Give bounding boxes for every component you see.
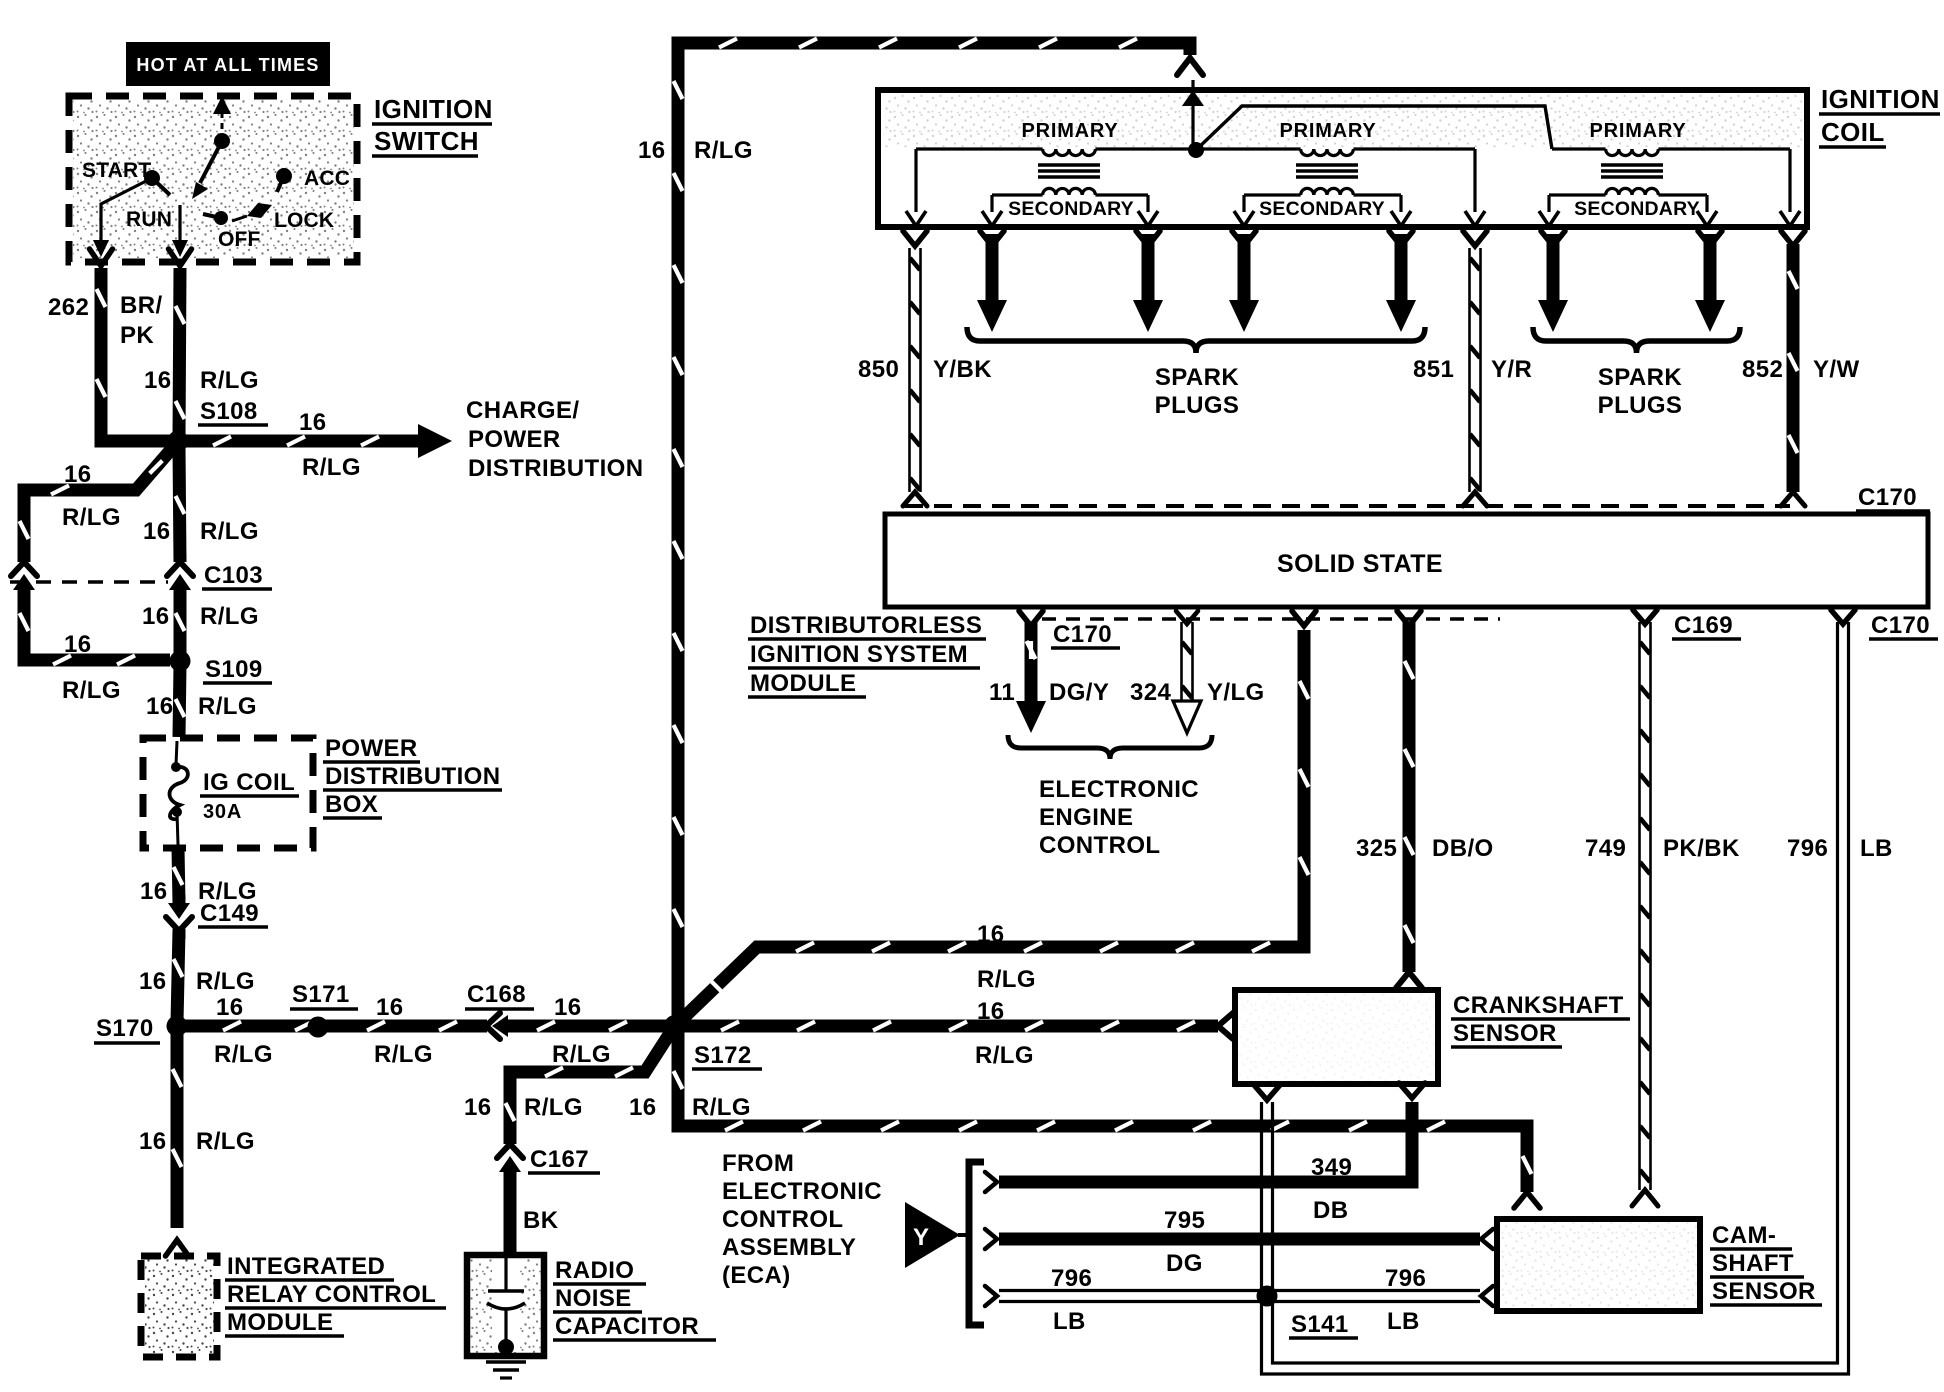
ignition switch internals (START/RUN/OFF/LOCK/ACC contacts and rotor): [93, 96, 292, 257]
svg-text:16: 16: [140, 878, 168, 905]
label fuse IG COIL: [200, 769, 299, 796]
connector C149: [166, 895, 192, 939]
svg-text:SENSOR: SENSOR: [1453, 1020, 1557, 1047]
svg-text:ELECTRONIC: ELECTRONIC: [1039, 776, 1199, 803]
brace spark plugs (right group): [1533, 327, 1740, 353]
svg-text:R/LG: R/LG: [302, 454, 361, 481]
label S170: [94, 1015, 160, 1043]
label 30A: [203, 801, 242, 823]
svg-text:16: 16: [64, 461, 92, 488]
svg-text:R/LG: R/LG: [200, 518, 259, 545]
wire 16 R/LG (run feed into S108): [169, 249, 192, 438]
label PK/BK: [1663, 835, 1740, 862]
label ELECTRONIC ENGINE CONTROL: [1039, 776, 1199, 859]
wire 16 R/LG (S172 branch to C167): [506, 1030, 673, 1140]
svg-text:C170: C170: [1858, 484, 1917, 511]
label 749: [1585, 835, 1626, 862]
svg-text:S109: S109: [205, 656, 263, 683]
label 16 (cam feed): [629, 1094, 657, 1121]
svg-text:R/LG: R/LG: [694, 137, 753, 164]
svg-text:325: 325: [1356, 835, 1397, 862]
wire 349 DB (ECA to crankshaft sensor): [985, 1083, 1425, 1192]
svg-text:ACC: ACC: [304, 167, 350, 190]
svg-text:S171: S171: [292, 981, 350, 1008]
label LOCK: [274, 209, 334, 232]
wire 16 R/LG (C168 to S172): [505, 1022, 668, 1031]
svg-text:R/LG: R/LG: [552, 1041, 611, 1068]
svg-text:16: 16: [142, 603, 170, 630]
label BR/PK: [120, 292, 163, 349]
label R/LG (charge feed): [302, 454, 361, 481]
splice S172: [664, 1015, 686, 1037]
label IGNITION COIL: [1819, 84, 1940, 147]
wire 16 R/LG (S172 to DIS module): [675, 611, 1316, 1026]
svg-text:796: 796: [1051, 1265, 1092, 1292]
svg-text:Y/W: Y/W: [1813, 356, 1860, 383]
brace spark plugs (left group): [967, 327, 1425, 353]
label PRIMARY (coil 2): [1279, 120, 1376, 142]
label C169: [1672, 612, 1741, 639]
label S108: [198, 398, 268, 425]
label R/LG (IRCM): [196, 1128, 255, 1155]
svg-text:R/LG: R/LG: [214, 1041, 273, 1068]
wire 16 R/LG (S170 to C168): [182, 1022, 487, 1031]
radio noise capacitor C1 (box, capacitor symbol, ground): [467, 1255, 544, 1378]
svg-text:C169: C169: [1674, 612, 1733, 639]
integrated relay control module (dashed box): [141, 1256, 217, 1357]
label 16 (C149 feed): [140, 878, 168, 905]
label 16 (C168-S172): [554, 994, 582, 1021]
svg-text:ENGINE: ENGINE: [1039, 804, 1133, 831]
label 796 (right side): [1787, 835, 1828, 862]
label Y/LG: [1207, 679, 1265, 706]
svg-text:749: 749: [1585, 835, 1626, 862]
label: HOT AT ALL TIMES (power feed tag): [126, 42, 330, 86]
svg-text:ASSEMBLY: ASSEMBLY: [722, 1234, 856, 1261]
connector C170 (module lower interface, dashed line): [1042, 617, 1500, 621]
label SPARK PLUGS (left): [1155, 364, 1240, 419]
label BK: [523, 1207, 559, 1234]
svg-text:SPARK: SPARK: [1155, 364, 1239, 391]
wire 16 R/LG (PDB to C149): [174, 848, 183, 903]
svg-text:BOX: BOX: [325, 791, 378, 818]
label 349: [1311, 1154, 1352, 1181]
wire LB (crankshaft sensor to S141, double line): [1254, 1085, 1280, 1297]
wire BK (C167 to radio noise capacitor): [504, 1178, 517, 1256]
svg-text:S108: S108: [200, 398, 258, 425]
label RUN: [126, 208, 172, 231]
wire 262 BR/PK (start feed): [90, 249, 173, 441]
svg-text:C103: C103: [204, 562, 263, 589]
svg-text:850: 850: [858, 356, 899, 383]
ECA bracket: [969, 1162, 984, 1325]
wire 325 DB/O (DIS to crankshaft sensor): [1396, 611, 1422, 988]
wire 16 R/LG (S170 to integrated relay control module): [166, 1031, 189, 1256]
label R/LG (crank feed): [975, 1042, 1034, 1069]
label SOLID STATE: [1277, 550, 1443, 578]
svg-text:IGNITION: IGNITION: [374, 94, 493, 124]
label R/LG (run feed): [200, 367, 259, 394]
svg-text:PK/BK: PK/BK: [1663, 835, 1740, 862]
label R/LG (pdb feed): [198, 693, 257, 720]
svg-text:DB: DB: [1313, 1197, 1348, 1224]
svg-text:(ECA): (ECA): [722, 1262, 791, 1289]
label 16 (trunk mid): [142, 603, 170, 630]
svg-text:RELAY CONTROL: RELAY CONTROL: [227, 1281, 436, 1308]
svg-text:SENSOR: SENSOR: [1712, 1278, 1816, 1305]
splice S170: [167, 1016, 188, 1037]
svg-text:R/LG: R/LG: [200, 603, 259, 630]
ignition coil module (three coils, primary/secondary windings): [878, 90, 1807, 227]
label ACC: [304, 167, 350, 190]
DIS module SOLID STATE box: [885, 514, 1928, 607]
label SECONDARY (coil 2): [1259, 198, 1385, 220]
svg-text:262: 262: [48, 294, 89, 321]
svg-text:349: 349: [1311, 1154, 1352, 1181]
label C103: [202, 562, 272, 589]
label C170 (upper): [1856, 484, 1930, 511]
svg-text:LB: LB: [1387, 1308, 1420, 1335]
svg-text:SOLID STATE: SOLID STATE: [1277, 550, 1443, 578]
svg-text:LOCK: LOCK: [274, 209, 334, 232]
svg-text:CHARGE/: CHARGE/: [466, 397, 579, 424]
label 16 (run feed): [144, 367, 172, 394]
label LB (right side): [1860, 835, 1893, 862]
svg-text:PLUGS: PLUGS: [1598, 392, 1683, 419]
svg-text:C170: C170: [1871, 612, 1930, 639]
label RADIO NOISE CAPACITOR: [553, 1257, 716, 1340]
splice S109: [170, 651, 191, 672]
svg-text:R/LG: R/LG: [196, 1128, 255, 1155]
label POWER DISTRIBUTION BOX: [323, 735, 502, 818]
svg-text:IGNITION SYSTEM: IGNITION SYSTEM: [750, 641, 968, 668]
label C168: [465, 981, 534, 1009]
label 796 (mid): [1385, 1265, 1426, 1292]
svg-text:BR/: BR/: [120, 292, 163, 319]
label DB/O: [1432, 835, 1494, 862]
svg-text:852: 852: [1742, 356, 1783, 383]
svg-text:Y: Y: [913, 1224, 929, 1251]
svg-text:OFF: OFF: [218, 228, 261, 251]
spark plug wires (6 arrows): [977, 231, 1725, 332]
svg-text:PLUGS: PLUGS: [1155, 392, 1240, 419]
svg-text:POWER: POWER: [468, 426, 561, 453]
wire 11 DG/Y (to electronic engine control): [1016, 611, 1046, 733]
svg-text:LB: LB: [1860, 835, 1893, 862]
svg-text:R/LG: R/LG: [975, 1042, 1034, 1069]
svg-text:S141: S141: [1291, 1311, 1349, 1338]
svg-text:CRANKSHAFT: CRANKSHAFT: [1453, 992, 1624, 1019]
label R/LG (C167 feed): [524, 1094, 583, 1121]
svg-text:16: 16: [64, 631, 92, 658]
svg-text:MODULE: MODULE: [750, 670, 856, 697]
label SPARK PLUGS (right): [1598, 364, 1683, 419]
label R/LG (C149 feed): [198, 878, 257, 905]
svg-text:RUN: RUN: [126, 208, 172, 231]
svg-text:NOISE: NOISE: [555, 1285, 632, 1312]
svg-text:796: 796: [1385, 1265, 1426, 1292]
svg-text:SPARK: SPARK: [1598, 364, 1682, 391]
svg-text:MODULE: MODULE: [227, 1309, 333, 1336]
label Y/BK: [933, 356, 992, 383]
svg-text:795: 795: [1164, 1207, 1205, 1234]
label Y/W: [1813, 356, 1860, 383]
connector C103: [10, 554, 193, 598]
label R/LG (cam feed): [692, 1094, 751, 1121]
wire 16 R/LG (C103 to S109 left leg): [20, 590, 171, 665]
svg-text:IG COIL: IG COIL: [203, 769, 295, 796]
connector C169 and wire 749 PK/BK (DIS to camshaft sensor): [1632, 610, 1658, 1206]
ignition switch SW1 housing (dashed box): [69, 96, 357, 262]
label R/LG (left leg): [62, 504, 121, 531]
svg-text:IGNITION: IGNITION: [1821, 84, 1940, 114]
wire 16 R/LG (S172 to crankshaft sensor): [681, 1013, 1233, 1039]
brace electronic engine control: [1008, 735, 1212, 759]
connector C168: [486, 1013, 514, 1039]
svg-text:R/LG: R/LG: [977, 966, 1036, 993]
label START: [82, 159, 151, 182]
svg-text:16: 16: [143, 518, 171, 545]
label S109: [203, 656, 272, 683]
label 16 (pdb feed): [146, 693, 174, 720]
wire 16 R/LG (S109 to power distribution box): [176, 665, 185, 737]
svg-text:16: 16: [299, 409, 327, 436]
svg-text:Y/BK: Y/BK: [933, 356, 992, 383]
label C170 (module lower): [1051, 621, 1120, 648]
svg-text:Y/R: Y/R: [1491, 356, 1532, 383]
svg-text:CONTROL: CONTROL: [1039, 832, 1160, 859]
label LB (left): [1053, 1308, 1086, 1335]
wire 16 R/LG (S172 down and across to camshaft sensor): [674, 1032, 1541, 1208]
label 324: [1130, 679, 1171, 706]
svg-text:C149: C149: [200, 900, 259, 927]
label INTEGRATED RELAY CONTROL MODULE: [225, 1253, 446, 1336]
svg-text:START: START: [82, 159, 151, 182]
label FROM ELECTRONIC CONTROL ASSEMBLY (ECA): [722, 1150, 882, 1289]
label R/LG (S170 feed): [196, 968, 255, 995]
svg-text:DISTRIBUTION: DISTRIBUTION: [325, 763, 500, 790]
connector C170 (right) and wire 796 LB loop: [1262, 610, 1856, 1374]
svg-text:16: 16: [977, 998, 1005, 1025]
svg-text:30A: 30A: [203, 801, 242, 823]
label 325: [1356, 835, 1397, 862]
svg-text:HOT AT ALL TIMES: HOT AT ALL TIMES: [136, 55, 319, 75]
wire 16 R/LG to charge/power distribution (arrow): [185, 424, 452, 458]
svg-text:16: 16: [977, 921, 1005, 948]
splice S108: [168, 431, 189, 452]
svg-text:INTEGRATED: INTEGRATED: [227, 1253, 385, 1280]
svg-text:R/LG: R/LG: [62, 504, 121, 531]
label 16 (charge feed): [299, 409, 327, 436]
svg-text:16: 16: [146, 693, 174, 720]
svg-text:16: 16: [638, 137, 666, 164]
label R/LG (left leg lower): [62, 677, 121, 704]
label R/LG (trunk upper): [200, 518, 259, 545]
label DG: [1166, 1250, 1203, 1277]
label CRANKSHAFT SENSOR: [1451, 992, 1630, 1047]
wire 852 Y/W (coil 3 primary to C170): [1781, 231, 1805, 506]
label LB (mid): [1387, 1308, 1420, 1335]
wire 795 DG (ECA to camshaft sensor): [985, 1229, 1493, 1249]
svg-text:CAPACITOR: CAPACITOR: [555, 1313, 699, 1340]
svg-text:PRIMARY: PRIMARY: [1589, 120, 1686, 142]
label Y/R: [1491, 356, 1532, 383]
label 850: [858, 356, 899, 383]
svg-text:PK: PK: [120, 322, 154, 349]
camshaft sensor box: [1497, 1219, 1700, 1311]
label 16 (left leg): [64, 461, 92, 488]
svg-text:DG/Y: DG/Y: [1049, 679, 1109, 706]
svg-text:DISTRIBUTORLESS: DISTRIBUTORLESS: [750, 612, 982, 639]
svg-text:PRIMARY: PRIMARY: [1279, 120, 1376, 142]
splice S171: [308, 1017, 329, 1038]
svg-text:LB: LB: [1053, 1308, 1086, 1335]
wire 851 Y/R (coil 2 primary to C170): [1463, 231, 1487, 506]
label 16 (S170 feed): [139, 968, 167, 995]
label 851: [1413, 356, 1454, 383]
label PRIMARY (coil 1): [1021, 120, 1118, 142]
svg-text:CONTROL: CONTROL: [722, 1206, 843, 1233]
svg-text:R/LG: R/LG: [62, 677, 121, 704]
svg-text:R/LG: R/LG: [198, 693, 257, 720]
svg-text:C167: C167: [530, 1146, 589, 1173]
svg-text:ELECTRONIC: ELECTRONIC: [722, 1178, 882, 1205]
wire 16 R/LG (C103 to S109 trunk): [176, 588, 185, 656]
label 16 (DIS return): [977, 921, 1005, 948]
label 795: [1164, 1207, 1205, 1234]
label DB: [1313, 1197, 1348, 1224]
svg-text:BK: BK: [523, 1207, 559, 1234]
svg-text:FROM: FROM: [722, 1150, 794, 1177]
svg-text:16: 16: [554, 994, 582, 1021]
svg-text:R/LG: R/LG: [374, 1041, 433, 1068]
svg-text:SECONDARY: SECONDARY: [1259, 198, 1385, 220]
label 16 (S171-C168): [376, 994, 404, 1021]
svg-text:R/LG: R/LG: [200, 367, 259, 394]
label 16 (trunk top): [638, 137, 666, 164]
svg-text:S172: S172: [694, 1042, 752, 1069]
svg-text:COIL: COIL: [1821, 117, 1885, 147]
svg-text:CAM-: CAM-: [1712, 1222, 1776, 1249]
svg-text:796: 796: [1787, 835, 1828, 862]
svg-text:SWITCH: SWITCH: [374, 126, 479, 156]
svg-text:16: 16: [464, 1094, 492, 1121]
wire 324 Y/LG (to electronic engine control): [1173, 611, 1201, 733]
label 796 (left): [1051, 1265, 1092, 1292]
label R/LG (trunk mid): [200, 603, 259, 630]
svg-text:DG: DG: [1166, 1250, 1203, 1277]
svg-text:R/LG: R/LG: [196, 968, 255, 995]
svg-text:SHAFT: SHAFT: [1712, 1250, 1794, 1277]
label CHARGE/POWER DISTRIBUTION: [466, 397, 643, 482]
svg-text:R/LG: R/LG: [524, 1094, 583, 1121]
wire 796 LB (ECA through S141 to camshaft sensor): [985, 1286, 1493, 1306]
label DISTRIBUTORLESS IGNITION SYSTEM MODULE: [748, 612, 986, 697]
svg-text:SECONDARY: SECONDARY: [1574, 198, 1700, 220]
connector C170 (DIS module interface, dashed line): [905, 504, 1790, 508]
label 16 (S170-S171): [216, 994, 244, 1021]
wire coil primary feed (into ignition coil module): [1182, 80, 1204, 148]
connector C167: [497, 1136, 523, 1180]
svg-text:SECONDARY: SECONDARY: [1008, 198, 1134, 220]
label C170 (right): [1869, 612, 1938, 639]
svg-text:16: 16: [629, 1094, 657, 1121]
wire 16 R/LG (C149 to S170): [174, 930, 183, 1022]
label IGNITION SWITCH: [372, 94, 493, 156]
label DG/Y: [1049, 679, 1109, 706]
svg-text:C168: C168: [467, 981, 526, 1008]
label R/LG (trunk top): [694, 137, 753, 164]
svg-text:DISTRIBUTION: DISTRIBUTION: [468, 455, 643, 482]
label 16 (C167 feed): [464, 1094, 492, 1121]
svg-text:16: 16: [376, 994, 404, 1021]
label C149: [198, 900, 268, 927]
svg-text:S170: S170: [96, 1015, 154, 1042]
label S172: [692, 1042, 762, 1069]
wire 850 Y/BK (coil 1 primary to C170): [903, 231, 927, 506]
label C167: [528, 1146, 600, 1173]
svg-text:Y/LG: Y/LG: [1207, 679, 1265, 706]
wire 16 R/LG trunk (S172 up and across top to ignition coil): [674, 39, 1204, 1021]
label R/LG (C168-S172): [552, 1041, 611, 1068]
power distribution box (dashed) with fuse IG COIL 30A: [143, 738, 313, 848]
label S141: [1289, 1311, 1358, 1338]
svg-text:R/LG: R/LG: [692, 1094, 751, 1121]
label 16 (crank feed): [977, 998, 1005, 1025]
label S171: [290, 981, 358, 1009]
svg-text:16: 16: [139, 968, 167, 995]
label 852: [1742, 356, 1783, 383]
svg-text:324: 324: [1130, 679, 1171, 706]
label R/LG (S170-S171): [214, 1041, 273, 1068]
wire 16 R/LG (S108 to C103 trunk): [176, 448, 185, 562]
wire 16 R/LG (S108 to C103 left leg): [20, 445, 176, 560]
label 16 (left leg lower): [64, 631, 92, 658]
svg-text:RADIO: RADIO: [555, 1257, 634, 1284]
label 11: [989, 679, 1015, 706]
svg-text:C170: C170: [1053, 621, 1112, 648]
label 262: [48, 294, 89, 321]
label 16 (IRCM): [139, 1128, 167, 1155]
label R/LG (S171-C168): [374, 1041, 433, 1068]
label OFF: [218, 228, 261, 251]
svg-text:16: 16: [144, 367, 172, 394]
label 16 (trunk upper): [143, 518, 171, 545]
svg-text:16: 16: [139, 1128, 167, 1155]
label PRIMARY (coil 3): [1589, 120, 1686, 142]
svg-text:PRIMARY: PRIMARY: [1021, 120, 1118, 142]
splice S141: [1257, 1286, 1278, 1307]
node Y (ECA source triangle): [905, 1202, 968, 1268]
crankshaft sensor box: [1235, 990, 1438, 1084]
svg-text:851: 851: [1413, 356, 1454, 383]
svg-text:DB/O: DB/O: [1432, 835, 1494, 862]
svg-text:16: 16: [216, 994, 244, 1021]
svg-text:11: 11: [989, 679, 1015, 706]
label CAM-SHAFT SENSOR: [1710, 1222, 1822, 1305]
label SECONDARY (coil 3): [1574, 198, 1700, 220]
svg-text:POWER: POWER: [325, 735, 418, 762]
label SECONDARY (coil 1): [1008, 198, 1134, 220]
label R/LG (DIS return): [977, 966, 1036, 993]
